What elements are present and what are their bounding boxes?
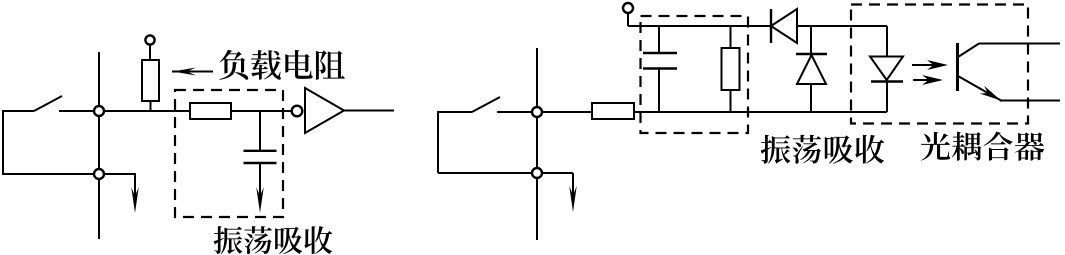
wire: load resistor to main line [150,101,152,111]
wire: clamp diode branch vertical [810,26,812,112]
dashed box: optocoupler [851,5,1028,124]
wire: buffer output [344,110,394,112]
wire: resistor R3 top lead [730,26,732,48]
label 振荡吸收 [761,135,885,164]
wire: right loop (source branch) [438,112,533,173]
dashed box: left snubber [175,90,283,217]
phototransistor Q1 collector [958,44,1060,58]
capacitor C2 [643,53,677,69]
terminal (top, right circuit) [623,3,633,13]
diode D2 (points up, clamp) [796,54,827,84]
node A (junction, open circle) [94,106,104,116]
buffer U1 (triangle) [305,88,344,133]
capacitor C1 [244,151,277,163]
wire: capacitor top lead [259,111,261,150]
wire: top rail [628,13,887,26]
wire: right main vertical bus [536,48,538,240]
diode D1 (points left, on top rail) [771,9,797,43]
wire: capacitor C2 bottom lead [658,69,660,113]
wire: resistor R3 bottom lead [730,90,732,112]
load resistor (vertical) [142,60,159,101]
wire: left loop (source branch) [3,111,95,174]
node D (junction, open circle) [532,168,542,178]
phototransistor Q1 emitter with arrow [958,76,1060,101]
node B (junction, open circle) [94,169,104,179]
wire + ground arrow below C1 [256,163,264,213]
LED D3 (optocoupler emitter diode) [870,26,903,112]
light arrow 1 [912,60,948,70]
wire: switch to node C [497,111,533,113]
dashed box: right snubber [641,16,749,133]
switch S1 blade [34,96,62,111]
wire: bottom rail to optocoupler LED [634,111,887,113]
wire: node C to series resistor [537,111,592,113]
resistor R1 (series, in snubber) [190,103,231,119]
resistor R2 (series) [592,103,634,119]
annotation arrow pointing at load resistor [172,68,213,76]
phototransistor Q1 base bar [956,43,959,91]
node C (junction, open circle) [532,107,542,117]
wire: terminal to load resistor [149,45,151,60]
wire: main horizontal line to buffer [99,110,292,112]
wire: switch to node A [59,110,95,112]
switch S2 blade [472,97,500,112]
wire: capacitor C2 top lead [658,26,660,53]
label 负载电阻 [219,50,345,80]
terminal (load resistor top) [145,35,154,44]
light arrow 2 [913,75,943,85]
wire: main vertical bus [98,52,100,239]
resistor R3 (vertical, in snubber) [722,48,740,90]
ground arrow (right circuit) [537,173,577,212]
output terminal circle [292,106,303,117]
label 振荡吸收 [214,226,333,254]
label 光耦合器 [921,132,1044,161]
ground arrow (left circuit) [99,173,139,213]
